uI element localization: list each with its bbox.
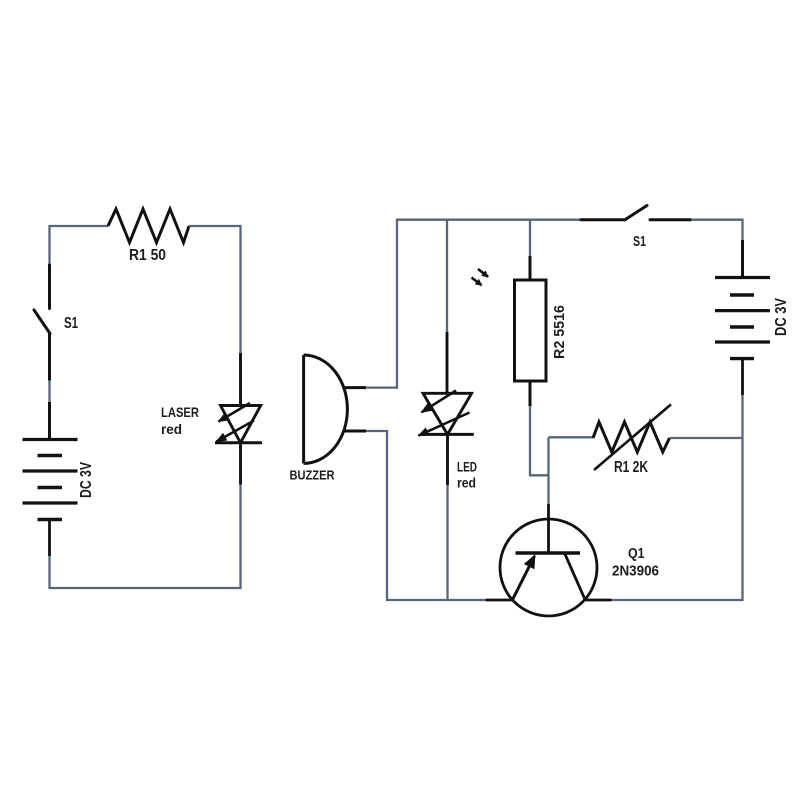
wire battery bottom to bottom rail to collector lead bbox=[612, 395, 743, 600]
battery DC 3V (right) bbox=[715, 240, 770, 395]
wire R1 2K left to base junction bbox=[547, 437, 549, 504]
light arrows into R2 bbox=[472, 269, 489, 285]
svg-text:R1 2K: R1 2K bbox=[614, 459, 649, 476]
svg-text:S1: S1 bbox=[633, 233, 646, 250]
svg-text:red: red bbox=[457, 475, 476, 491]
svg-text:R1 50: R1 50 bbox=[129, 247, 166, 264]
wire top rail to R2 bbox=[529, 220, 531, 256]
LED red bbox=[422, 332, 474, 485]
variable resistor R1 2K bbox=[593, 404, 671, 470]
wire R2 bottom to base junction bbox=[530, 406, 549, 475]
svg-text:R2 5516: R2 5516 bbox=[551, 305, 568, 359]
svg-text:Q1: Q1 bbox=[628, 546, 645, 562]
transistor Q1 bbox=[486, 504, 612, 616]
svg-text:DC 3V: DC 3V bbox=[78, 461, 95, 498]
wire LED bottom to rail bbox=[446, 485, 448, 600]
wire buzzer top lead to top rail, rail to switch bbox=[366, 220, 581, 388]
LED emission arrows bbox=[419, 391, 470, 436]
switch S1 (left) bbox=[34, 265, 50, 380]
wire top rail to LED bbox=[446, 220, 448, 332]
wire top-left: corner at (49,226) from switch up to resistor bbox=[50, 226, 109, 265]
wire buzzer bottom lead to bottom rail to emitter lead bbox=[366, 431, 486, 600]
wire R1 2K left lead bbox=[549, 436, 594, 438]
battery DC 3V (left) bbox=[23, 402, 78, 556]
buzzer bbox=[304, 355, 366, 463]
svg-text:BUZZER: BUZZER bbox=[290, 469, 335, 483]
wire R1 2K right lead to battery line bbox=[670, 437, 743, 439]
switch S1 (right) bbox=[581, 206, 691, 220]
svg-text:LED: LED bbox=[457, 459, 477, 475]
wire bottom of left loop bbox=[50, 485, 241, 589]
svg-text:2N3906: 2N3906 bbox=[612, 564, 659, 580]
svg-text:DC 3V: DC 3V bbox=[773, 297, 790, 336]
svg-text:S1: S1 bbox=[64, 315, 78, 332]
svg-text:LASER: LASER bbox=[161, 404, 199, 420]
svg-text:red: red bbox=[161, 421, 182, 437]
wire switch to battery (left) bbox=[48, 380, 50, 402]
laser diode LASER red bbox=[215, 353, 262, 485]
wire switch to battery (right) bbox=[691, 220, 743, 240]
laser emission arrows bbox=[217, 403, 255, 442]
photoresistor R2 5516 bbox=[515, 256, 547, 406]
wire top-right of left loop: resistor to laser anode bbox=[189, 226, 241, 353]
resistor R1 bbox=[108, 209, 189, 243]
